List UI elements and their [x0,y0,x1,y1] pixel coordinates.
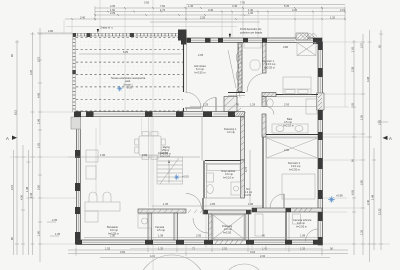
svg-text:h=2.55: h=2.55 [244,195,252,197]
camara side walls [148,213,152,240]
column terrace right / building corner [178,30,187,41]
baie mid-right: south wall y=134 [266,135,318,138]
door arc living to corridor [186,194,202,210]
dressing1 east wall x=202 [201,117,203,161]
top wall band [187,33,322,44]
svg-text:h=2.55 m: h=2.55 m [264,65,275,69]
terrace level marker blue [117,86,133,92]
left tick marks [15,34,59,244]
corridor east wall x=264 (baie west) [262,97,266,138]
svg-text:1.48: 1.48 [371,194,375,200]
svg-text:2.60: 2.60 [360,179,364,185]
svg-text:4.35: 4.35 [29,69,33,75]
svg-text:h=2.55 m: h=2.55 m [289,167,300,171]
svg-text:2.40: 2.40 [80,15,86,19]
dressing X wardrobe [213,215,244,239]
left wall band [75,116,80,240]
blue level markers [174,174,189,180]
room labels [262,59,276,69]
svg-text:Hol: Hol [246,189,250,191]
door leaf diagonal in hall [228,50,236,88]
svg-text:h=2.55 m: h=2.55 m [195,70,206,74]
svg-text:2.35: 2.35 [110,11,116,15]
wardrobe dormitor1 top [297,43,316,56]
svg-text:1.60: 1.60 [110,8,116,12]
door arc hall bottom [202,98,216,112]
terrace top railing band [73,33,187,37]
svg-text:h=2.55 m: h=2.55 m [108,231,119,235]
svg-text:h=2.55 m: h=2.55 m [160,151,171,155]
door arc into dormitor1 [247,73,266,92]
svg-text:1.40: 1.40 [248,8,254,12]
vertical grid extension lines [152,0,154,270]
svg-text:2.43: 2.43 [29,192,33,198]
dormitor1 south wall y=94 [228,93,318,97]
bottom outside path line [130,248,322,250]
svg-text:4.35: 4.35 [110,4,116,8]
svg-text:1.30: 1.30 [248,11,254,15]
svg-text:1.05: 1.05 [37,142,41,148]
section marker A right [383,136,393,141]
svg-text:-0.05: -0.05 [126,86,132,90]
terrace label [111,76,146,86]
corridor west wall x=242 [241,117,245,160]
svg-text:2.95: 2.95 [210,202,216,206]
bottom wall band [75,240,322,245]
svg-text:1.35: 1.35 [163,202,169,206]
svg-text:1.08: 1.08 [300,234,306,238]
svg-text:1.20: 1.20 [330,15,336,19]
octagon lamp in hall [250,60,260,70]
svg-text:4.0 mp: 4.0 mp [227,130,235,134]
interior dimension rows [68,156,200,158]
hall label [194,64,207,74]
top dimension texts [48,0,346,236]
right dimension lines [354,30,381,262]
svg-text:6.25: 6.25 [123,50,129,54]
mid wall y=112 with piers and glazing [74,112,246,118]
svg-text:A: A [6,136,9,141]
corridor door arc bottom [193,218,208,233]
room A furniture [255,214,263,236]
svg-text:1.55: 1.55 [105,246,111,250]
plumbing shaft next to hall [224,97,241,116]
svg-text:8.15: 8.15 [14,109,18,115]
bed dormitor 2 X style [267,138,318,158]
hol label [244,189,253,197]
svg-text:1.35: 1.35 [360,229,364,235]
staircase to attic [157,157,183,184]
terrace left railing band [72,34,76,112]
svg-text:3.45: 3.45 [232,4,238,8]
section marker A left [6,136,17,142]
entrance door arc [185,92,201,108]
curtain wavy line on shaft [236,44,239,98]
right tick marks [352,34,388,244]
living armchairs left [86,150,98,179]
left extension lines [10,34,76,244]
svg-text:1.29: 1.29 [250,103,256,107]
svg-text:2.35: 2.35 [52,218,58,222]
svg-text:2.32: 2.32 [260,254,266,258]
svg-text:2.00: 2.00 [284,148,290,152]
svg-text:4.75: 4.75 [244,166,248,172]
dormitor2 west wall x=264 [263,137,266,208]
svg-text:1.45: 1.45 [248,202,254,206]
facade note text [240,27,262,34]
corridor wall x=242 lower part [241,160,245,198]
svg-text:1.50: 1.50 [360,114,364,120]
hall west wall x=185 [184,42,187,112]
door arc into dorm2 [270,194,284,208]
svg-text:4.38: 4.38 [366,76,370,82]
svg-text:9.04: 9.04 [250,250,256,254]
svg-text:4.30: 4.30 [20,194,24,200]
svg-text:h=2.10 m: h=2.10 m [223,175,234,179]
svg-text:3.40: 3.40 [208,8,214,12]
svg-text:2.95: 2.95 [196,234,202,238]
svg-text:4.06: 4.06 [37,92,41,98]
grup sanitar left wall [203,161,205,199]
kitchen counter right [138,214,152,228]
svg-text:polistiren pe fatada: polistiren pe fatada [240,30,262,34]
door arc into baie [266,107,274,115]
partition line below pier [148,117,150,208]
camera tehnica fixtures [293,214,301,224]
grup sanitar fixtures [207,165,242,196]
svg-text:2.5 mp: 2.5 mp [157,228,165,232]
kitchen island [85,192,120,222]
svg-text:3.50: 3.50 [120,250,126,254]
svg-text:1.38: 1.38 [158,234,164,238]
svg-text:7.55: 7.55 [351,102,355,108]
top tick marks [71,7,346,21]
svg-text:2.40: 2.40 [366,199,370,205]
svg-text:3.95: 3.95 [144,0,150,4]
svg-text:7.60: 7.60 [160,4,166,8]
svg-text:h=2.55 m: h=2.55 m [296,224,307,228]
svg-text:12.25: 12.25 [378,208,382,215]
canopy line above terrace with label [66,26,237,33]
bottom extension lines [76,198,322,256]
stair shaft wall x=240 hatched [238,42,242,92]
left step block at terrace end [71,117,81,129]
grup sanitar bottom wall y=198 [204,197,244,199]
svg-text:2.75: 2.75 [37,56,41,62]
svg-text:2.38: 2.38 [351,66,355,72]
svg-text:2.03: 2.03 [378,119,382,125]
svg-text:2.90: 2.90 [48,29,54,33]
svg-text:+0.98: +0.98 [336,194,343,198]
svg-text:1.45: 1.45 [188,4,194,8]
grup sanitar top wall y=160 [205,161,244,164]
svg-text:2.96: 2.96 [142,153,148,157]
door arc camera tehnica [306,229,319,242]
svg-text:1.29: 1.29 [203,103,209,107]
svg-text:2.07: 2.07 [360,42,364,48]
baie mid-right fixtures [267,99,317,133]
left dimension lines [14,28,41,262]
terrace deck hatch rows [76,37,183,111]
bed dormitor 1 [283,77,311,94]
svg-text:1.60: 1.60 [37,230,41,236]
svg-text:h=2.55: h=2.55 [223,230,232,234]
svg-text:+0.00: +0.00 [182,175,189,179]
svg-text:2.93: 2.93 [284,103,290,107]
right extension lines [322,42,390,244]
eave line top right [240,15,345,17]
svg-text:1.06: 1.06 [37,118,41,124]
dorm2 carpet square [282,174,315,199]
closet next to shaft [244,43,261,49]
dormitor1 west wall with door gap [263,43,267,74]
svg-text:4.4 mp: 4.4 mp [245,192,253,194]
svg-text:2.05: 2.05 [198,53,204,57]
svg-text:1.96: 1.96 [100,153,106,157]
top dimension lines [37,4,345,33]
top extension lines down to wall [64,9,322,38]
dressing side walls [209,214,249,240]
svg-text:5.35: 5.35 [284,4,290,8]
bottom decorative circles [137,255,207,270]
camara / dressing top wall y=210 [138,209,227,213]
svg-text:1.35: 1.35 [55,232,61,236]
svg-text:h=2.10 m: h=2.10 m [283,123,294,127]
dorm2 bottom wall y=209 [252,208,322,212]
svg-text:1.05: 1.05 [351,46,355,52]
svg-text:Gratar el. u: Gratar el. u [100,26,114,30]
svg-text:1.48: 1.48 [25,186,29,192]
svg-text:3.30: 3.30 [292,8,298,12]
eave line right [344,16,346,108]
room divider x=287 bottom right [286,212,289,240]
dining table [135,132,165,159]
svg-text:2.05: 2.05 [200,15,206,19]
svg-text:4.05: 4.05 [351,189,355,195]
bottom dimension lines [68,250,348,258]
corridor wall x=203 going down [202,198,204,210]
right wall band [317,42,325,245]
svg-text:3.50: 3.50 [37,184,41,190]
svg-text:4.80: 4.80 [283,45,289,49]
svg-text:A: A [389,136,392,141]
svg-text:2.15: 2.15 [10,184,14,190]
bottom tick marks [76,248,322,256]
